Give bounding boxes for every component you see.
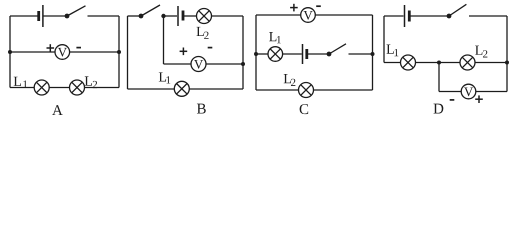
wire A voltmeter row left	[10, 51, 55, 53]
wire B junction to battery	[164, 15, 178, 17]
lamp L2 (D)	[460, 55, 475, 70]
node A-right (junction)	[117, 50, 121, 54]
wire B right edge	[242, 16, 244, 89]
wire A right edge	[118, 16, 120, 88]
wire D switch to top-right	[469, 15, 507, 17]
wire D voltmeter row right	[476, 91, 507, 93]
battery D (cell)	[405, 5, 410, 27]
wire D voltmeter loop vertical	[438, 63, 440, 92]
wire B voltmeter row right	[206, 63, 243, 65]
wire C top-left	[256, 14, 301, 16]
label L2 (B)	[197, 27, 209, 39]
voltmeter V (A)	[55, 45, 70, 60]
wire B left edge	[127, 16, 129, 89]
voltmeter V (D)	[461, 84, 476, 99]
wire D middle left	[384, 62, 401, 64]
wire D battery to switch	[410, 15, 449, 17]
wire B voltmeter row left	[164, 63, 192, 65]
label L2 (C)	[284, 74, 296, 86]
lamp L1 (B)	[174, 81, 189, 96]
wire A bottom right	[85, 87, 120, 89]
node D right (junction)	[505, 61, 509, 65]
wire D lamp1 to junction	[416, 62, 440, 64]
label B	[197, 104, 206, 114]
wire D voltmeter row left	[439, 91, 461, 93]
label L1 (C)	[269, 32, 281, 43]
label L1 (D)	[387, 45, 399, 57]
label D	[434, 104, 444, 114]
wire B bottom left	[128, 88, 175, 90]
wire C left edge	[255, 15, 257, 90]
wire B bottom right	[189, 88, 243, 90]
wire B battery to lamp	[184, 15, 197, 17]
label L1 (B)	[159, 72, 171, 83]
switch S (D)	[447, 4, 467, 18]
lamp L2 (C)	[299, 83, 314, 98]
wire C top-right	[315, 14, 372, 16]
wire A left edge	[9, 16, 11, 88]
node B junction (voltmeter tap)	[161, 14, 165, 18]
wire C bottom left	[256, 89, 299, 91]
label - (D voltmeter)	[450, 99, 455, 101]
wire C middle left	[256, 53, 268, 55]
wire A voltmeter row right	[70, 51, 119, 53]
label L2 (A)	[85, 76, 97, 88]
wire C battery to switch	[308, 53, 330, 55]
label + (C voltmeter)	[290, 4, 298, 12]
label + (A voltmeter)	[47, 44, 55, 52]
wire D right edge	[506, 16, 508, 92]
label - (B voltmeter)	[208, 47, 213, 49]
wire A between lamps	[49, 87, 69, 89]
wire D top-left	[384, 15, 404, 17]
node C left (junction)	[254, 52, 258, 56]
node B right (junction)	[241, 62, 245, 66]
label L2 (D)	[475, 46, 487, 58]
lamp L2 (A)	[70, 80, 85, 95]
wire D left edge	[383, 16, 385, 63]
label A	[52, 105, 63, 115]
node D middle (junction)	[437, 61, 441, 65]
wire B lamp to top-right	[212, 15, 244, 17]
switch S (A)	[65, 6, 86, 19]
wire A battery to switch	[44, 15, 68, 17]
wire A bottom left	[10, 87, 34, 89]
lamp L1 (D)	[401, 55, 416, 70]
label L1 (A)	[14, 77, 28, 88]
wire C bottom right	[314, 89, 373, 91]
battery A (cell)	[39, 5, 43, 27]
label - (C voltmeter)	[316, 5, 321, 7]
wire A switch to top-right	[88, 15, 120, 17]
lamp L2 (B)	[197, 9, 212, 24]
wire C right edge	[372, 15, 374, 90]
wire A top-left segment	[10, 15, 38, 17]
wire D junction to lamp2	[439, 62, 460, 64]
wire B inner vertical	[163, 16, 165, 64]
voltmeter V (B)	[191, 57, 206, 72]
lamp L1 (C)	[268, 47, 283, 62]
wire B top-left	[128, 15, 142, 17]
wire D lamp2 to right edge	[475, 62, 507, 64]
lamp L1 (A)	[34, 80, 49, 95]
label - (A voltmeter)	[76, 47, 81, 49]
wire C switch to right	[349, 53, 373, 55]
node C right (junction)	[371, 52, 375, 56]
label + (D voltmeter)	[475, 95, 483, 103]
label + (B voltmeter)	[180, 48, 188, 56]
battery C (cell)	[303, 44, 307, 64]
switch S (B)	[139, 5, 160, 18]
label C	[300, 104, 309, 114]
voltmeter V (C)	[301, 8, 316, 23]
battery B (cell)	[178, 6, 183, 26]
wire C lamp to battery	[283, 53, 302, 55]
node A-left (junction)	[8, 50, 12, 54]
switch S (C)	[327, 44, 346, 57]
